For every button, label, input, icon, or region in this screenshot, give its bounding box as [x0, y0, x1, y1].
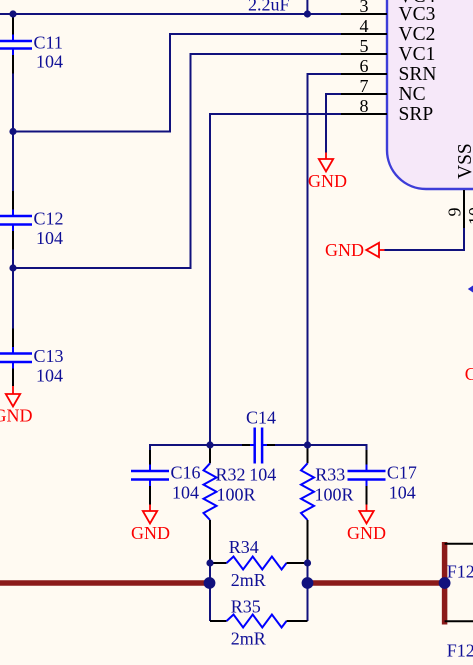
- svg-text:10: 10: [465, 207, 473, 225]
- wire pin8 net: [210, 114, 345, 445]
- wire right shunt rail: [307, 563, 309, 621]
- svg-text:SRP: SRP: [399, 104, 434, 125]
- svg-text:100R: 100R: [217, 485, 256, 505]
- capacitor C12: [0, 191, 64, 250]
- capacitor C14: [242, 408, 276, 485]
- capacitor C11: [0, 16, 63, 74]
- svg-text:4: 4: [360, 16, 369, 36]
- svg-text:6: 6: [360, 56, 369, 76]
- svg-text:GND: GND: [131, 523, 170, 543]
- svg-text:9: 9: [445, 208, 465, 217]
- wire pin5 net: [13, 54, 345, 268]
- capacitor C16: [131, 450, 201, 505]
- IC pin 4: [341, 33, 387, 35]
- fuse F12 upper pin: [445, 543, 473, 545]
- wire pin9 net: [385, 228, 465, 250]
- svg-text:C16: C16: [171, 463, 201, 483]
- svg-text:104: 104: [36, 366, 63, 386]
- svg-text:C12: C12: [34, 209, 64, 229]
- svg-text:F12: F12: [447, 562, 473, 582]
- wire bottom horizontal: [150, 445, 254, 452]
- IC pin 3: [341, 13, 387, 15]
- IC pin 6: [341, 73, 387, 75]
- ground GND (left rail): [0, 386, 33, 426]
- svg-text:104: 104: [36, 52, 63, 72]
- wire left rail: [12, 14, 14, 17]
- svg-text:104: 104: [389, 483, 416, 503]
- junction dots: [9, 10, 16, 17]
- svg-text:100R: 100R: [315, 485, 354, 505]
- svg-text:F12: F12: [447, 641, 473, 661]
- resistor R35: [210, 597, 308, 649]
- svg-text:VC1: VC1: [399, 44, 436, 65]
- fuse F12 lower pin: [445, 620, 473, 622]
- svg-text:2mR: 2mR: [231, 570, 266, 590]
- resistor R33: [301, 445, 354, 563]
- wire stub up from junction: [306, 0, 308, 14]
- ground GND (pin9, left pointing): [325, 240, 385, 260]
- big junction dots on bus: [204, 577, 216, 589]
- svg-text:C13: C13: [34, 346, 64, 366]
- svg-text:VSS: VSS: [455, 143, 473, 179]
- power bus vertical (fuse rail): [442, 542, 448, 625]
- svg-text:104: 104: [36, 228, 63, 248]
- svg-text:C11: C11: [34, 32, 63, 52]
- svg-text:C: C: [465, 364, 473, 384]
- op-amp U? IC body (clipped top/right): [387, 0, 473, 189]
- IC pin 8: [341, 113, 387, 115]
- svg-text:NC: NC: [399, 84, 426, 105]
- svg-text:VC3: VC3: [399, 4, 436, 25]
- svg-text:R33: R33: [315, 465, 345, 485]
- svg-text:GND: GND: [347, 523, 386, 543]
- resistor R32: [204, 445, 256, 563]
- capacitor C17: [348, 450, 417, 505]
- svg-text:GND: GND: [308, 171, 347, 191]
- wire pin6 net: [308, 74, 346, 445]
- svg-text:R34: R34: [229, 537, 259, 557]
- svg-text:2mR: 2mR: [231, 628, 266, 648]
- svg-text:5: 5: [360, 36, 369, 56]
- svg-text:R35: R35: [231, 597, 261, 617]
- ground GND (pin7): [308, 153, 347, 192]
- svg-text:3: 3: [360, 0, 369, 16]
- svg-text:104: 104: [172, 482, 199, 502]
- svg-text:GND: GND: [0, 406, 33, 426]
- svg-text:R32: R32: [216, 465, 246, 485]
- svg-text:C14: C14: [246, 408, 276, 428]
- svg-text:8: 8: [360, 96, 369, 116]
- IC pin 9: [463, 190, 465, 228]
- wire pin7 net: [326, 94, 345, 153]
- svg-text:2.2uF: 2.2uF: [248, 0, 290, 15]
- net arrow fragment (right edge): [468, 286, 473, 293]
- svg-text:C17: C17: [387, 463, 417, 483]
- svg-text:SRN: SRN: [399, 64, 437, 85]
- ground GND (C17): [347, 505, 386, 544]
- resistor R34: [210, 537, 308, 590]
- IC pin 5: [341, 53, 387, 55]
- capacitor C13: [0, 329, 64, 387]
- svg-text:7: 7: [360, 76, 369, 96]
- svg-text:104: 104: [249, 465, 276, 485]
- wire pin4 net: [13, 34, 345, 132]
- IC pin 7: [341, 93, 387, 95]
- svg-text:VC2: VC2: [399, 24, 436, 45]
- svg-text:GND: GND: [325, 240, 364, 260]
- wire pin3 net: [0, 13, 345, 15]
- ground GND (C16): [131, 505, 170, 544]
- wire left shunt rail: [209, 563, 211, 621]
- power bus right segment: [308, 580, 445, 586]
- power bus (thick dark red) left segment: [0, 580, 210, 586]
